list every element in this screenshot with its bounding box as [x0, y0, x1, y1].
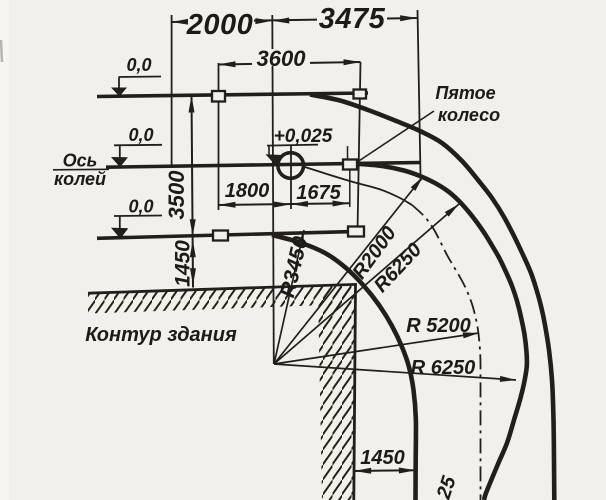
clamp square S2 on track2 (fifth wheel) — [343, 160, 357, 170]
clamp square S1R on track1 — [354, 90, 367, 99]
track line 1 (outer) straight — [97, 93, 368, 97]
clamp square S1L on track1 — [212, 91, 225, 102]
label axis (Ось / колей) — [53, 151, 109, 190]
arrow 1675 right — [333, 201, 350, 207]
svg-text:+0,025: +0,025 — [274, 126, 333, 147]
clamp square S3L on track3 — [213, 231, 228, 241]
svg-text:R 6250: R 6250 — [411, 357, 476, 379]
svg-text:0,0: 0,0 — [128, 125, 153, 145]
svg-text:3500: 3500 — [164, 170, 189, 220]
svg-text:Контур здания: Контур здания — [85, 324, 237, 346]
arrow 3600 right — [344, 59, 361, 65]
svg-text:3475: 3475 — [319, 3, 386, 35]
track line 3 (inner) straight — [97, 231, 362, 238]
label 3600 — [252, 49, 310, 66]
track curve 1 (outer envelope) — [310, 95, 554, 500]
arrowhead R6250 lower — [500, 376, 516, 382]
arrow 3500 bottom — [190, 219, 196, 236]
extension line x=272 from top dim to arc center — [272, 15, 274, 364]
arrow 2000 right — [255, 18, 272, 24]
svg-text:1675: 1675 — [296, 182, 341, 204]
radial R2000 line — [274, 177, 423, 365]
clamp square S3R on track3 — [348, 227, 364, 237]
building hatched band right — [318, 285, 356, 500]
arrow 1450v top — [190, 240, 196, 257]
building hatched band top — [88, 285, 356, 313]
svg-text:Ось: Ось — [63, 151, 98, 171]
datum mark 2 (0,0 on track 2) — [111, 125, 162, 167]
track curve 3 (inner envelope R3450) — [272, 235, 416, 500]
datum mark 3 (0,0 on track 3) — [111, 197, 162, 239]
label 3475 — [317, 8, 387, 28]
fifth wheel circle — [278, 153, 304, 179]
arrow 3500 top — [189, 96, 195, 113]
scan edge light band — [0, 0, 9, 500]
dimension line 1800 / 1675 — [219, 203, 350, 205]
arrow 2000 left — [172, 19, 189, 25]
scan edge smudge — [1, 40, 2, 62]
svg-text:1800: 1800 — [225, 180, 270, 202]
track curve 2 (fifth wheel envelope) — [358, 164, 527, 500]
radial R3450 line — [274, 230, 304, 364]
arrowhead R3450 — [298, 230, 304, 246]
svg-text:0,0: 0,0 — [128, 197, 153, 217]
svg-text:1450: 1450 — [172, 240, 195, 287]
arrow 3475 right — [400, 15, 417, 21]
extension line through squares x=359 — [358, 62, 361, 232]
radial R6250 upper line — [274, 204, 459, 364]
svg-text:колей: колей — [54, 169, 106, 189]
center tick above clamp S2 — [347, 146, 349, 159]
svg-text:Пятое: Пятое — [435, 83, 495, 103]
dimension line 3600 — [219, 62, 361, 65]
arrow 1800 left — [219, 202, 236, 208]
arrowhead R5200 — [463, 332, 479, 338]
arrow 1450v bottom — [190, 268, 196, 285]
arrow 1450h left — [354, 468, 371, 474]
arrow 1450h right — [399, 468, 416, 474]
svg-text:R 5200: R 5200 — [406, 315, 471, 337]
dimension line 3500 + 1450 vertical — [192, 96, 194, 288]
extension line x=417 (3475 right) — [418, 10, 421, 181]
leader line to fifth wheel label — [358, 111, 434, 162]
arrowhead R6250 upper — [445, 204, 459, 217]
svg-text:1450: 1450 — [360, 447, 405, 469]
radial R6250 lower line — [274, 364, 516, 380]
datum mark at circle (+0,025) — [266, 126, 333, 165]
svg-text:0,0: 0,0 — [126, 55, 151, 75]
arrow 3475 left — [272, 18, 289, 24]
extension line x=218.5 (3600 left / 1800 left) — [218, 63, 220, 210]
arrowhead R2000 — [411, 177, 423, 191]
building contour edge — [88, 284, 356, 500]
extension stub below clamp S2 (1675 right) — [349, 168, 351, 207]
label Пятое колесо — [435, 83, 500, 125]
extension line x=171.6 (2000 left) — [171, 15, 173, 165]
datum mark 1 (0,0 on track 1) — [111, 55, 161, 97]
track line 2 (axis) straight — [106, 163, 421, 168]
fifth wheel path dash-dot curve R5200 — [305, 167, 412, 205]
radial R5200 line — [274, 333, 479, 364]
arrow 1800 right — [274, 202, 291, 208]
svg-text:3600: 3600 — [257, 46, 307, 71]
vertical centerline through circle — [290, 146, 292, 209]
dimension line 1450 bottom — [354, 469, 416, 472]
svg-text:2000: 2000 — [186, 9, 254, 41]
svg-text:колесо: колесо — [438, 105, 500, 125]
label 2000 — [188, 12, 254, 33]
arrow 3600 left — [219, 61, 236, 67]
dimension line top (2000 / 3475) — [172, 18, 418, 22]
arrow 1675 left — [291, 201, 308, 207]
